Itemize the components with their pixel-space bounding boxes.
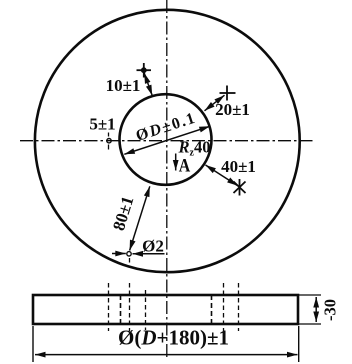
arrow 20 [205, 95, 225, 111]
side view bottom edge extension [298, 323, 321, 325]
projection line x=145.5 (10 point) [145, 290, 147, 330]
point hole Ø2 marker [127, 252, 131, 256]
hidden hole edge left [120, 295, 122, 324]
hole leader arrow left [112, 253, 126, 255]
point 10 star [137, 63, 152, 78]
horizontal centerline [20, 140, 315, 142]
projection line x=238.5 (40 point) [238, 283, 240, 331]
projection line x=223.5 (20 point) [223, 283, 225, 331]
overall diameter dimension line [35, 354, 298, 356]
hole leader arrow right [133, 253, 165, 255]
arrow 10 [144, 73, 152, 96]
arrow 40 [206, 165, 238, 186]
datum arrow A [175, 154, 177, 171]
arrow 80 [130, 186, 150, 250]
svg-text:10±1: 10±1 [106, 76, 141, 95]
svg-text:Ø(D+180)±1: Ø(D+180)±1 [118, 326, 229, 350]
hole diameter dimension line [124, 126, 210, 154]
point 5 marker [107, 139, 111, 143]
vertical centerline [166, 0, 168, 360]
hidden hole edge right [211, 295, 213, 324]
svg-text:40±1: 40±1 [221, 157, 256, 176]
side view plate [33, 295, 298, 324]
bottom extension line left [32, 326, 34, 362]
point 40 star [234, 179, 246, 196]
projection line x=108.5 (5 point) [108, 133, 110, 332]
point 20 star [220, 86, 236, 101]
svg-text:5±1: 5±1 [89, 115, 115, 134]
thickness dimension arrow [315, 297, 317, 322]
svg-text:-30: -30 [320, 299, 339, 321]
outer circle [35, 10, 300, 272]
side view top edge extension [298, 294, 321, 296]
projection line x=129.5 (hole point) [129, 258, 131, 331]
bottom extension line right [298, 326, 300, 362]
svg-text:20±1: 20±1 [215, 100, 250, 119]
svg-text:Ø2: Ø2 [142, 237, 164, 256]
svg-text:A: A [179, 156, 191, 177]
inner circle (hole D) [120, 94, 212, 185]
